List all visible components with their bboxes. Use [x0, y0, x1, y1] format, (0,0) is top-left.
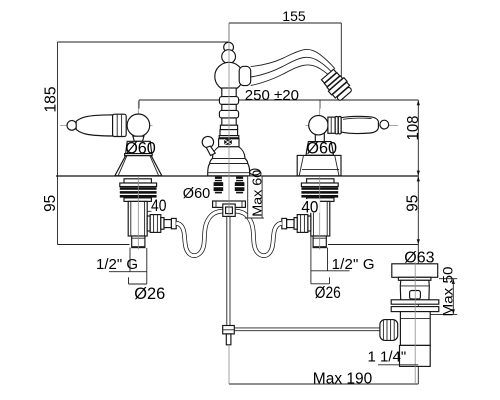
svg-text:1 1/4": 1 1/4" [368, 349, 407, 366]
svg-text:Ø26: Ø26 [315, 284, 341, 302]
svg-text:Ø60: Ø60 [125, 140, 156, 158]
svg-text:95: 95 [404, 195, 421, 212]
svg-text:Ø26: Ø26 [134, 285, 165, 303]
svg-text:Max 190: Max 190 [313, 371, 373, 388]
svg-text:155: 155 [282, 8, 306, 24]
svg-text:250 ±20: 250 ±20 [245, 87, 299, 104]
svg-text:Ø60: Ø60 [183, 186, 210, 202]
svg-text:108: 108 [405, 116, 422, 141]
svg-text:185: 185 [43, 87, 60, 113]
svg-text:1/2" G: 1/2" G [96, 256, 138, 273]
svg-text:Max 50: Max 50 [440, 267, 455, 317]
svg-text:Ø63: Ø63 [404, 250, 434, 267]
svg-text:40: 40 [151, 197, 167, 215]
svg-text:Max 60: Max 60 [249, 170, 264, 217]
svg-text:Ø60: Ø60 [306, 140, 337, 158]
svg-text:95: 95 [42, 195, 59, 212]
svg-text:1/2" G: 1/2" G [332, 256, 375, 273]
svg-text:40: 40 [301, 198, 318, 216]
